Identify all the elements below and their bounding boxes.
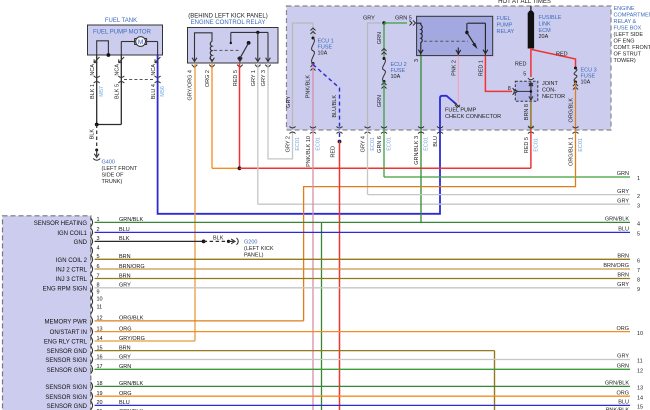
svg-text:BLU: BLU [618, 227, 629, 233]
svg-text:TOWER): TOWER) [614, 58, 636, 64]
svg-text:(LEFT SIDE: (LEFT SIDE [614, 32, 644, 38]
svg-text:GRY 2: GRY 2 [286, 136, 292, 152]
svg-text:IGN COIL 2: IGN COIL 2 [56, 258, 88, 264]
svg-text:GRY/ORG 4: GRY/ORG 4 [188, 70, 194, 100]
svg-text:GRY: GRY [617, 354, 629, 360]
svg-text:GRY: GRY [363, 16, 375, 22]
svg-text:BLU: BLU [618, 400, 629, 406]
svg-text:EC01: EC01 [387, 137, 393, 151]
svg-text:FUSIBLE: FUSIBLE [539, 15, 562, 21]
svg-text:BLU: BLU [433, 136, 439, 147]
svg-text:GRN: GRN [377, 32, 383, 44]
svg-text:FUEL PUMP MOTOR: FUEL PUMP MOTOR [93, 30, 152, 36]
svg-text:EC01: EC01 [370, 137, 376, 151]
svg-text:4: 4 [637, 222, 640, 228]
svg-text:ENGINE: ENGINE [614, 6, 635, 12]
svg-text:PNK 2: PNK 2 [451, 60, 457, 76]
svg-text:BLK 1: BLK 1 [90, 84, 96, 99]
svg-text:G400: G400 [102, 160, 115, 166]
svg-text:4: 4 [97, 246, 100, 252]
svg-text:10: 10 [637, 331, 643, 337]
svg-text:ECM: ECM [539, 28, 552, 34]
svg-text:BLK: BLK [90, 129, 96, 140]
svg-text:5: 5 [523, 72, 526, 78]
svg-text:11: 11 [637, 359, 643, 365]
svg-text:10A: 10A [318, 51, 328, 57]
svg-text:NCA: NCA [90, 64, 96, 76]
svg-text:BLK 5: BLK 5 [115, 84, 121, 99]
svg-text:SENSOR SIGN: SENSOR SIGN [45, 358, 87, 364]
svg-text:GRN 5: GRN 5 [395, 16, 412, 22]
svg-text:2: 2 [637, 194, 640, 200]
svg-text:BLU/BLK: BLU/BLK [332, 95, 338, 118]
svg-text:8: 8 [508, 86, 511, 92]
svg-text:5: 5 [637, 232, 640, 238]
svg-text:EC01: EC01 [295, 137, 301, 151]
svg-text:RED: RED [556, 52, 568, 58]
svg-text:GRY 1: GRY 1 [251, 70, 257, 86]
svg-text:GRN: GRN [617, 171, 629, 177]
svg-text:10: 10 [97, 296, 103, 302]
svg-text:PANEL): PANEL) [244, 253, 264, 259]
svg-text:ENG RLY CTRL: ENG RLY CTRL [44, 340, 88, 346]
svg-text:FUSE BOX: FUSE BOX [614, 26, 642, 32]
svg-text:LINK: LINK [539, 21, 552, 27]
svg-text:BRN 8: BRN 8 [524, 104, 530, 120]
svg-text:FUEL PUMP: FUEL PUMP [445, 108, 477, 114]
svg-text:OF ENG: OF ENG [614, 39, 635, 45]
svg-text:14: 14 [637, 395, 643, 401]
svg-text:ON/START IN: ON/START IN [50, 330, 87, 336]
svg-text:SIDE OF: SIDE OF [102, 173, 125, 179]
svg-text:M: M [138, 39, 143, 46]
svg-text:RELAY &: RELAY & [614, 19, 637, 25]
svg-text:ENGINE CONTROL RELAY: ENGINE CONTROL RELAY [191, 20, 266, 26]
svg-text:RELAY: RELAY [497, 29, 515, 35]
svg-text:GRN/BLK: GRN/BLK [605, 381, 629, 387]
svg-text:RED: RED [515, 62, 527, 68]
svg-text:GND: GND [74, 240, 88, 246]
svg-text:ENG RPM SIGN: ENG RPM SIGN [43, 286, 87, 292]
svg-text:SENSOR HEATING: SENSOR HEATING [34, 221, 88, 227]
svg-text:13: 13 [637, 386, 643, 392]
svg-text:RED 1: RED 1 [479, 60, 485, 76]
svg-text:15: 15 [637, 405, 643, 410]
svg-text:GRN 6: GRN 6 [377, 136, 383, 153]
svg-text:INJ 2 CTRL: INJ 2 CTRL [56, 268, 88, 274]
svg-text:ORG/BLK 1: ORG/BLK 1 [569, 137, 575, 166]
svg-text:GRN: GRN [377, 95, 383, 107]
svg-text:ORG: ORG [616, 326, 629, 332]
svg-text:EC01: EC01 [424, 137, 430, 151]
svg-text:ORG 2: ORG 2 [205, 70, 211, 87]
svg-text:SENSOR GND: SENSOR GND [47, 349, 88, 355]
svg-text:BRN/ORG: BRN/ORG [603, 263, 629, 269]
svg-text:ORG: ORG [616, 390, 629, 396]
svg-text:EC01: EC01 [533, 138, 539, 152]
svg-text:1: 1 [637, 176, 640, 182]
svg-text:6: 6 [637, 259, 640, 265]
svg-text:NECTOR: NECTOR [542, 94, 565, 100]
svg-text:9: 9 [97, 289, 100, 295]
svg-text:3: 3 [414, 59, 420, 62]
svg-text:IGN COIL1: IGN COIL1 [57, 231, 87, 237]
svg-text:10A: 10A [581, 80, 591, 86]
svg-text:GRN: GRN [617, 364, 629, 370]
svg-text:SENSOR GND: SENSOR GND [47, 404, 88, 410]
svg-text:EC01: EC01 [316, 137, 322, 151]
svg-text:BLK: BLK [213, 235, 224, 241]
svg-text:CHECK CONNECTOR: CHECK CONNECTOR [445, 114, 501, 120]
svg-text:NCA: NCA [151, 64, 157, 76]
svg-text:GRY: GRY [617, 189, 629, 195]
svg-text:(LEFT FRONT: (LEFT FRONT [102, 166, 138, 172]
svg-text:CON-: CON- [542, 88, 556, 94]
svg-text:G200: G200 [244, 240, 257, 246]
svg-text:GRY: GRY [286, 96, 292, 108]
svg-text:GRN/BLK 3: GRN/BLK 3 [414, 136, 420, 165]
svg-text:HOT AT ALL TIMES: HOT AT ALL TIMES [498, 0, 551, 5]
svg-text:SENSOR SIGN: SENSOR SIGN [45, 385, 87, 391]
svg-text:PNK/BLK 10: PNK/BLK 10 [306, 136, 312, 167]
svg-text:(BEHIND LEFT KICK PANEL): (BEHIND LEFT KICK PANEL) [188, 14, 267, 20]
svg-text:JOINT: JOINT [542, 81, 559, 87]
svg-text:BRN: BRN [617, 254, 629, 260]
svg-text:PUMP: PUMP [497, 22, 513, 28]
svg-text:M57: M57 [99, 86, 105, 97]
svg-text:ORG/BLK: ORG/BLK [568, 98, 574, 123]
svg-text:BRN: BRN [617, 273, 629, 279]
svg-text:EC01: EC01 [578, 138, 584, 152]
svg-text:COMPARTMENT: COMPARTMENT [614, 13, 650, 19]
svg-text:7: 7 [637, 268, 640, 274]
svg-text:GRN/BLK: GRN/BLK [605, 217, 629, 223]
svg-text:GRY 4: GRY 4 [361, 136, 367, 152]
svg-text:10A: 10A [391, 74, 401, 80]
svg-text:GRY: GRY [617, 198, 629, 204]
svg-text:MEMORY PWR: MEMORY PWR [45, 320, 88, 326]
svg-text:OF STRUT: OF STRUT [614, 52, 642, 58]
svg-text:BLU 4: BLU 4 [151, 84, 157, 99]
svg-text:PNK/BLK: PNK/BLK [306, 75, 312, 99]
svg-text:(LEFT KICK: (LEFT KICK [244, 246, 274, 252]
svg-text:TRUNK): TRUNK) [102, 179, 123, 185]
svg-text:SENSOR GND: SENSOR GND [47, 368, 88, 374]
svg-text:M56: M56 [160, 86, 166, 97]
svg-text:INJ 3 CTRL: INJ 3 CTRL [56, 277, 88, 283]
svg-text:SENSOR SIGN: SENSOR SIGN [45, 395, 87, 401]
svg-text:COMT. FRONT: COMT. FRONT [614, 45, 650, 51]
svg-text:12: 12 [637, 369, 643, 375]
svg-text:FUEL TANK: FUEL TANK [105, 18, 137, 24]
svg-text:3: 3 [637, 203, 640, 209]
svg-text:FUEL: FUEL [497, 16, 511, 22]
svg-text:20A: 20A [539, 34, 549, 40]
svg-text:NCA: NCA [115, 64, 121, 76]
svg-text:11: 11 [97, 304, 103, 310]
svg-text:8: 8 [637, 278, 640, 284]
svg-text:RED: RED [331, 146, 337, 158]
svg-text:9: 9 [637, 287, 640, 293]
svg-text:RED 5: RED 5 [233, 70, 239, 86]
svg-text:RED 5: RED 5 [524, 137, 530, 153]
svg-text:GRY 3: GRY 3 [261, 70, 267, 86]
svg-text:GRY: GRY [617, 282, 629, 288]
